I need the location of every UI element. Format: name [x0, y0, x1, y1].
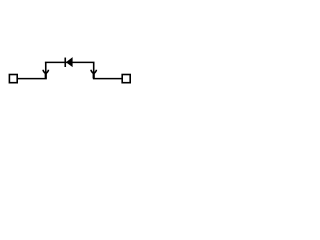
- terminal square (left pin): [9, 75, 17, 83]
- wire (left vertical drop of branch): [45, 62, 47, 78]
- diode D1 anode triangle (pointing left): [66, 57, 73, 67]
- terminal square (right pin): [122, 75, 130, 83]
- wire (bottom-right, from right contact to right terminal): [93, 78, 122, 80]
- contact arrow (left, barbed head pointing down onto bottom wire): [43, 70, 49, 79]
- wire (bottom-left, from left terminal to left contact): [18, 78, 47, 80]
- wire (right vertical drop of branch): [93, 62, 95, 78]
- wire (top branch horizontal run): [45, 61, 95, 63]
- contact arrow (right, barbed head pointing down onto bottom wire): [91, 70, 97, 79]
- diode D1 cathode bar: [64, 58, 66, 67]
